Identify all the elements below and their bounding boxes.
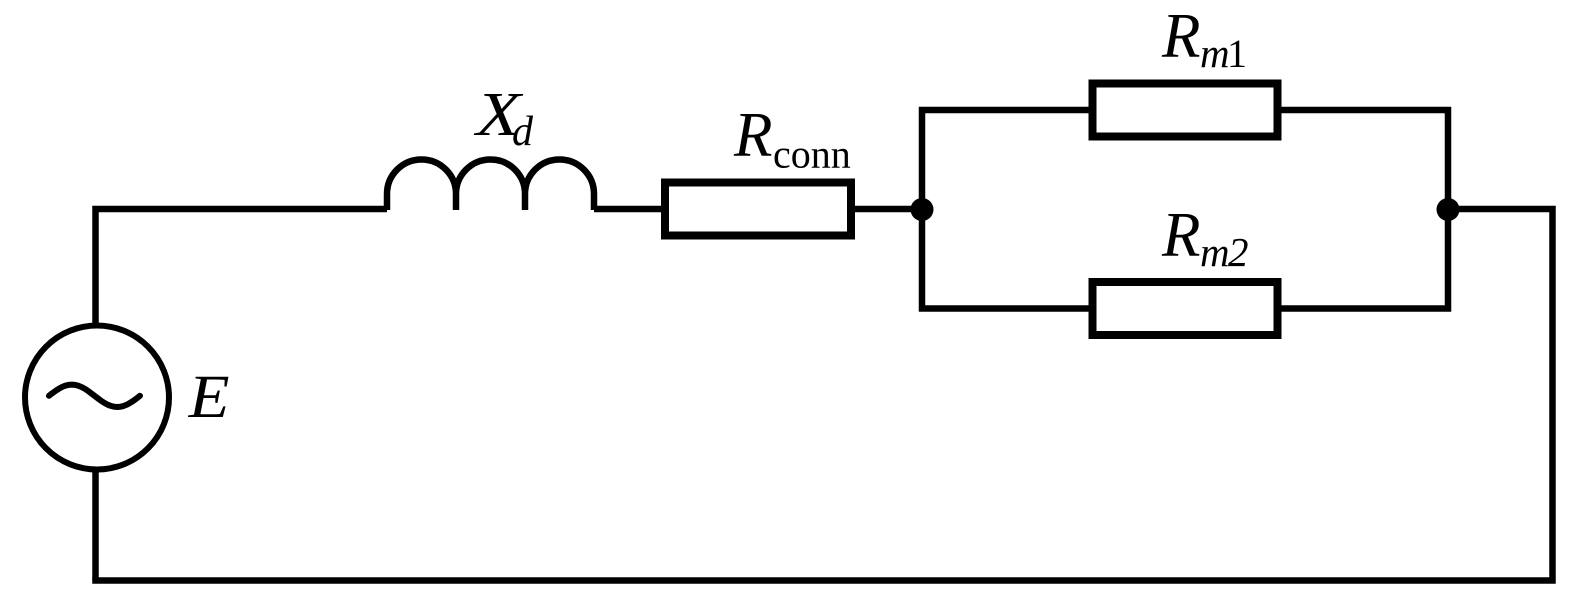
node A — [911, 198, 934, 221]
resistor Rm1 — [1093, 84, 1278, 137]
svg-text:R: R — [1161, 1, 1200, 71]
svg-text:R: R — [733, 100, 772, 170]
inductor Xd — [387, 160, 594, 211]
resistor Rm2 — [1093, 282, 1278, 335]
svg-text:d: d — [512, 109, 534, 155]
svg-text:E: E — [188, 363, 230, 431]
AC source E — [25, 326, 169, 470]
node B — [1437, 198, 1460, 221]
svg-text:2: 2 — [1228, 229, 1249, 275]
wire: parallel branch loop — [922, 110, 1448, 309]
wire: source bottom lead — [92, 468, 99, 581]
wire: inductor to Rconn to node A — [594, 206, 922, 213]
svg-text:R: R — [1161, 200, 1200, 270]
svg-text:m: m — [1200, 229, 1230, 275]
svg-text:m: m — [1200, 30, 1230, 76]
svg-text:1: 1 — [1227, 31, 1247, 76]
wire: bottom return, right riser and stub to node B — [92, 209, 1552, 581]
wire: source top lead to inductor — [96, 209, 388, 327]
resistor Rconn — [665, 183, 851, 236]
svg-text:conn: conn — [773, 132, 851, 177]
